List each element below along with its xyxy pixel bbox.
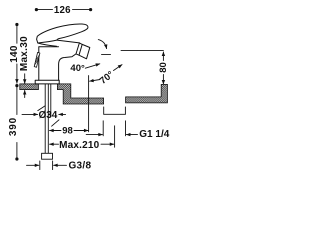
faucet group [34,24,90,84]
svg-text:Max.30: Max.30 [19,36,30,71]
hose line 1 [44,84,46,153]
dim 140 line lower with down arrow to deck [16,64,18,83]
dim G3/8 tick right [52,161,54,170]
dim O34 right arrow [59,113,66,115]
dim 126 line right [73,9,90,11]
faucet body [39,47,59,80]
aerator ring line [79,44,82,55]
lever front face [38,43,57,46]
dim 126 line left [38,9,53,11]
dim 126 dot left [35,8,38,11]
dim 126 dot right [89,8,92,11]
dim 98 right arrow [74,130,88,132]
dim G3/8 left line and arrow [27,164,39,166]
dim 98 left arrow [50,130,61,132]
dim 80 lower arrow [162,75,164,85]
ceramic deck left slab [20,84,168,104]
hose line 2 [47,84,49,153]
dim 140 dot top [15,23,18,26]
hose line 3 short [50,84,52,116]
hose break slash lower [52,120,59,126]
faucet body right edge and spout underside [59,54,76,80]
dim Max.210 right arrow [101,143,114,145]
40 deg leader arrow [85,64,100,68]
tick C [125,121,127,136]
spout top edge [57,40,80,43]
faucet base plate [35,80,59,84]
dim O34 left arrow [22,113,38,115]
waste bracket [104,107,126,114]
swivel curved arrow [98,40,106,49]
jet reference vertical line [88,76,90,132]
dim 390 dot bottom [15,157,18,160]
svg-text:40°: 40° [70,63,85,74]
dim G3/8 right arrow [54,164,67,166]
dim G3/8 tick left [39,161,41,170]
dim 140 line upper [16,26,18,43]
faucet lever handle [37,24,88,43]
dim Max.210 left arrow [50,143,59,145]
aerator [76,43,90,59]
dim G1 1/4 right arrow [126,134,137,136]
hose connector G3/8 [42,153,53,159]
svg-text:Max.210: Max.210 [59,140,100,151]
short horizontal ref segment [102,54,111,56]
dim Max.30 line with down arrow above deck [24,74,26,84]
top right horizontal line [121,49,163,51]
svg-text:Ø34: Ø34 [38,110,57,121]
dim Max.30 up arrow below deck [24,90,26,97]
dim 80 upper arrow [162,52,164,61]
ceramic lower slab right + column [126,84,168,103]
70 deg upper-right arrow [114,65,123,71]
dim 390 line upper [16,87,18,114]
svg-text:126: 126 [54,5,71,16]
svg-text:G3/8: G3/8 [68,161,91,172]
70 deg lower-left arrow [90,80,100,82]
svg-text:G1 1/4: G1 1/4 [139,129,169,140]
hose break slash upper [38,106,45,111]
tick B [114,126,116,147]
svg-text:390: 390 [8,117,19,136]
dim 390 line lower [16,143,18,158]
limiter tab on body [34,52,40,67]
dim G1 1/4 left arrow [86,134,102,136]
dim 390 dot top [15,84,18,87]
svg-text:80: 80 [158,62,169,73]
tick A [102,121,104,136]
ceramic deck right step block [57,84,103,104]
svg-text:70°: 70° [98,69,116,87]
svg-text:98: 98 [62,125,73,136]
